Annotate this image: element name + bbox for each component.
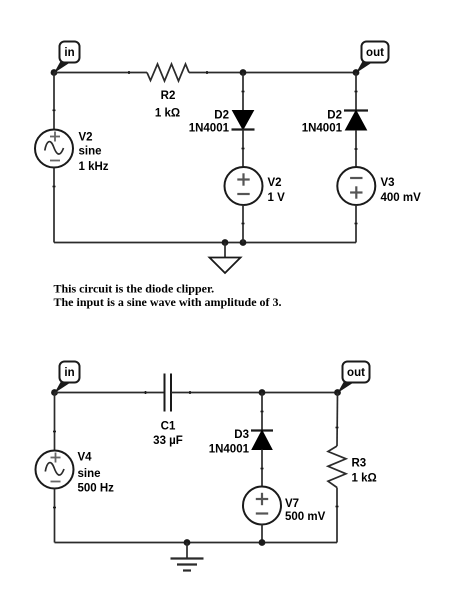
svg-text:V3: V3 [381, 177, 395, 189]
svg-text:R3: R3 [352, 458, 367, 470]
wire: D2 cathode to V2 (1 V) top [242, 130, 244, 168]
svg-text:1N4001: 1N4001 [189, 123, 230, 135]
wire: V3 bottom to bottom rail [355, 205, 357, 243]
pin tick: C1 right pin [189, 391, 191, 394]
svg-text:in: in [64, 47, 74, 59]
junction node (earth ground tap) [184, 539, 191, 546]
wire: V2 (1 V) bottom to bottom rail [242, 205, 244, 243]
ground (top circuit, chassis triangle) [210, 243, 241, 274]
svg-text:D3: D3 [234, 429, 249, 441]
wire: node A down to D2 anode [242, 73, 244, 111]
pin tick: R2 right pin [206, 71, 208, 74]
svg-text:sine: sine [78, 468, 101, 480]
diode D3 (pointing up) [251, 431, 273, 450]
svg-text:1 kΩ: 1 kΩ [352, 473, 377, 485]
junction node (V7 branch / bottom rail) [259, 539, 266, 546]
diode D2 (right branch, pointing up) [344, 111, 368, 131]
wire: out node down to R3 top [336, 393, 339, 447]
svg-text:C1: C1 [161, 421, 176, 433]
svg-text:1 V: 1 V [268, 192, 286, 204]
resistor R3 (vertical) [328, 446, 346, 488]
pin tick: R2 left pin [128, 71, 130, 74]
flag "out" (top circuit) [356, 42, 389, 74]
svg-text:500 Hz: 500 Hz [78, 483, 115, 495]
wire: out node down to D2 (right) cathode [355, 73, 357, 111]
svg-text:1N4001: 1N4001 [209, 444, 250, 456]
svg-text:1N4001: 1N4001 [302, 123, 343, 135]
svg-text:33 µF: 33 µF [153, 435, 183, 447]
svg-text:D2: D2 [214, 110, 229, 122]
svg-text:V7: V7 [285, 498, 299, 510]
svg-text:1 kHz: 1 kHz [79, 161, 109, 173]
svg-text:in: in [64, 367, 74, 379]
wire: V7 bottom to bottom rail [261, 524, 263, 543]
voltage source V2 (sine, 1 kHz) [35, 130, 73, 168]
ground (bottom circuit, earth) [171, 543, 204, 571]
junction node (ground tap, top circuit) [222, 239, 229, 246]
svg-text:R2: R2 [161, 90, 176, 102]
pin tick: D2 middle top pin [242, 91, 245, 93]
wire: in node down to V2 sine source top [53, 73, 55, 130]
wire: in node to C1 left plate [55, 392, 165, 394]
svg-text:out: out [366, 47, 384, 59]
wire: node B down to D3 cathode [261, 393, 263, 431]
wire: V2 sine bottom to bottom rail [53, 168, 55, 243]
flag "in" (top circuit) [54, 42, 80, 74]
wire: R3 bottom to bottom rail [336, 488, 338, 543]
resistor R2 [147, 64, 189, 81]
junction node (middle branch / bottom rail, top circuit) [240, 239, 247, 246]
svg-text:out: out [347, 367, 365, 379]
pin tick: C1 left pin [145, 391, 147, 394]
wire: C1 right plate to out node (top rail, bottom circuit) [171, 392, 338, 394]
wire: in node to R2 left lead [54, 72, 147, 74]
wire: D3 anode to V7 top [261, 450, 263, 488]
wire: D2 (right) anode to V3 top [355, 130, 357, 168]
pin tick: D2 right top pin [355, 91, 358, 93]
pin tick: V2 (1 V) bottom pin [242, 223, 245, 225]
pin tick: V3 bottom pin [355, 223, 358, 225]
capacitor C1 [165, 374, 172, 412]
bottom rail wire (bottom circuit) [55, 542, 338, 544]
pin tick: R3 top pin [336, 427, 339, 429]
svg-text:400 mV: 400 mV [381, 192, 422, 204]
voltage source V3 (400 mV, minus on top) [337, 167, 375, 205]
pin tick: V2 sine bottom pin [53, 186, 56, 188]
node OUT (bottom circuit) [334, 389, 341, 396]
svg-text:V2: V2 [79, 132, 93, 144]
flag "out" (bottom circuit) [338, 362, 370, 394]
pin tick: V4 bottom pin [53, 507, 56, 509]
pin tick: V4 top pin [53, 431, 56, 433]
flag "in" (bottom circuit) [55, 362, 80, 394]
svg-text:sine: sine [79, 146, 102, 158]
voltage source V4 (sine, 500 Hz) [36, 451, 74, 489]
pin tick: D2 right bottom / V3 top pin [355, 148, 358, 150]
pin tick: R3 bottom pin [336, 506, 339, 508]
wire: in node down to V4 top [54, 393, 56, 451]
svg-text:V2: V2 [268, 177, 282, 189]
pin tick: D3 top pin [261, 411, 264, 413]
node OUT (top circuit) [353, 69, 360, 76]
svg-text:500 mV: 500 mV [285, 511, 326, 523]
node IN (top circuit) [51, 69, 58, 76]
bottom rail wire (top circuit) [54, 242, 356, 244]
svg-text:The input is a sine wave with: The input is a sine wave with amplitude … [54, 295, 282, 309]
diode D2 (middle branch, pointing down) [232, 111, 255, 130]
pin tick: D2 middle bottom / V2 top pin [242, 148, 245, 150]
voltage source V7 (500 mV) [243, 487, 281, 525]
node IN (bottom circuit) [51, 389, 58, 396]
wire: R2 right lead to out node (top rail) [189, 72, 356, 74]
svg-text:1 kΩ: 1 kΩ [155, 108, 180, 120]
svg-text:This circuit is the diode clip: This circuit is the diode clipper. [54, 281, 215, 295]
voltage source V2 (1 V) [225, 167, 263, 205]
pin tick: D3 bottom / V7 top pin [261, 468, 264, 470]
junction node B (top rail / D3 branch) [259, 389, 266, 396]
svg-text:D2: D2 [327, 110, 342, 122]
junction node A (top rail / D2 middle branch) [240, 69, 247, 76]
svg-text:V4: V4 [78, 452, 93, 464]
wire: V4 bottom to bottom rail [54, 489, 56, 543]
pin tick: V2 sine top pin [53, 110, 56, 112]
